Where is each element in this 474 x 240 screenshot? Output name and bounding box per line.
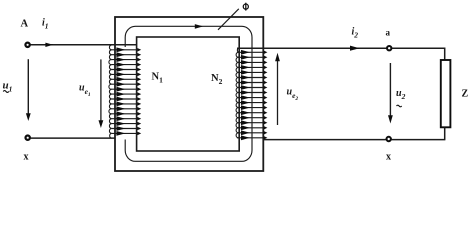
flux path (125, 26, 252, 161)
load Z (441, 60, 451, 127)
terminal A (25, 43, 29, 47)
svg-text:Z: Z (462, 89, 469, 100)
wire: bottom right from core to right rail (264, 139, 446, 141)
svg-text:x: x (386, 152, 391, 163)
emf ue1 arrow (100, 59, 102, 122)
transformer core outer rectangle (115, 17, 263, 171)
secondary winding N2 (236, 48, 267, 140)
wire: input top from terminal A to transformer window (31, 44, 138, 46)
node a (387, 46, 391, 50)
wire: right rail top (444, 48, 446, 61)
primary winding N1 (109, 45, 141, 138)
flux arrow (195, 24, 203, 29)
current i1 arrow (45, 43, 53, 47)
voltage u1 arrow (27, 59, 29, 115)
svg-text:x: x (24, 152, 29, 163)
svg-text:A: A (21, 19, 29, 30)
wire: output top from winding to node a to right rail (237, 47, 445, 49)
node x right (387, 137, 391, 141)
wire: right rail bottom (444, 127, 446, 139)
emf ue2 arrow (277, 60, 279, 126)
flux leader line (218, 9, 239, 30)
label phi (243, 4, 248, 9)
voltage u2 arrow (389, 63, 391, 117)
svg-text:a: a (386, 28, 391, 38)
terminal x left (26, 136, 30, 140)
current i2 arrow (350, 46, 360, 51)
wire: bottom left from terminal x to core (31, 137, 116, 139)
transformer core inner rectangle (137, 37, 240, 151)
